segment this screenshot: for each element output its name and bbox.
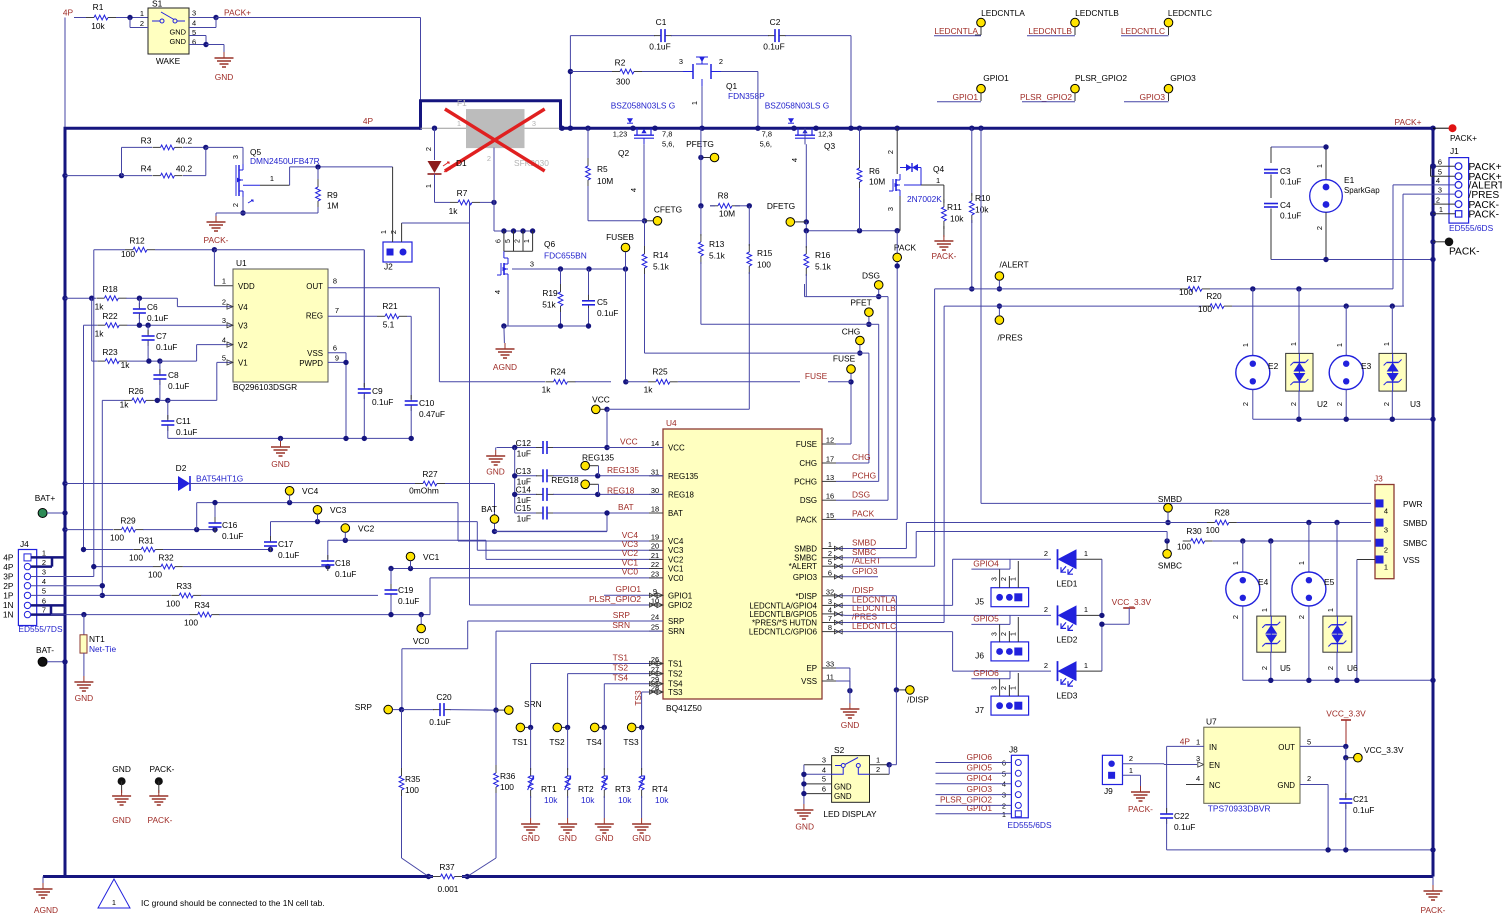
svg-text:4: 4 [192, 19, 196, 28]
svg-text:C6: C6 [147, 302, 158, 312]
testpoint DFETG [767, 201, 806, 226]
svg-text:6: 6 [192, 38, 196, 47]
capacitor C16 [209, 500, 244, 541]
svg-text:10M: 10M [869, 177, 885, 187]
svg-text:GPIO1: GPIO1 [668, 591, 693, 600]
svg-text:2: 2 [719, 57, 723, 66]
svg-text:4P: 4P [1180, 737, 1191, 747]
wire J2 pin1 [392, 167, 394, 242]
capacitor C11 [161, 400, 197, 438]
svg-text:2: 2 [1289, 402, 1298, 406]
capacitor C12 [497, 438, 664, 459]
connector J4 [3, 539, 63, 634]
svg-text:2: 2 [1241, 402, 1250, 406]
svg-text:7: 7 [828, 614, 832, 623]
capacitor C14 REG18 [512, 485, 663, 506]
svg-text:11: 11 [826, 673, 834, 682]
svg-text:3: 3 [532, 119, 536, 128]
svg-text:1uF: 1uF [517, 514, 531, 524]
resistor R7 [435, 188, 497, 216]
svg-text:3: 3 [192, 9, 196, 18]
wire TS1 net [531, 661, 663, 728]
svg-text:6: 6 [495, 239, 502, 243]
svg-text:*DISP: *DISP [795, 592, 817, 601]
svg-text:1: 1 [1011, 632, 1018, 636]
svg-text:C14: C14 [516, 485, 532, 495]
svg-text:VC4: VC4 [302, 486, 319, 496]
svg-text:5.1k: 5.1k [653, 262, 670, 272]
svg-text:SMBC: SMBC [1158, 561, 1182, 571]
svg-text:V3: V3 [238, 322, 248, 331]
svg-text:S2: S2 [834, 745, 845, 755]
wire 4P thick bus top [64, 101, 1434, 130]
svg-text:2: 2 [1335, 402, 1344, 406]
svg-text:E4: E4 [1258, 577, 1269, 587]
svg-text:PACK+: PACK+ [224, 8, 251, 18]
svg-text:J1: J1 [1450, 146, 1459, 156]
svg-text:1: 1 [1335, 343, 1344, 347]
svg-text:GPIO2: GPIO2 [668, 601, 692, 610]
svg-text:4: 4 [790, 158, 799, 162]
svg-text:2: 2 [1001, 686, 1008, 690]
svg-text:C5: C5 [597, 297, 608, 307]
wire J1 pins [1393, 163, 1455, 306]
svg-text:4: 4 [629, 188, 638, 192]
svg-text:BQ41Z50: BQ41Z50 [666, 703, 702, 713]
testpoint VC4 [285, 486, 318, 503]
svg-text:GND: GND [169, 28, 186, 37]
svg-text:D1: D1 [456, 158, 467, 168]
svg-text:0.1uF: 0.1uF [156, 342, 177, 352]
wire right bus vertical [1432, 127, 1435, 877]
svg-text:0.001: 0.001 [438, 884, 459, 894]
svg-text:17: 17 [826, 455, 834, 464]
transistor Q6 pins 6,5,2,1 [494, 228, 535, 251]
svg-text:AGND: AGND [34, 905, 58, 915]
wire TS3 net [642, 689, 663, 727]
svg-text:FUSEB: FUSEB [606, 232, 634, 242]
resistor R13 [699, 206, 726, 324]
svg-text:VC0: VC0 [622, 567, 639, 577]
note triangle 1 [98, 879, 325, 908]
wire S2 left pins [801, 765, 831, 804]
svg-text:2: 2 [1307, 774, 1311, 783]
svg-text:U2: U2 [1317, 399, 1328, 409]
testpoint /PRES [995, 303, 1023, 342]
svg-text:REG18: REG18 [668, 490, 695, 499]
svg-text:DMN2450UFB47R: DMN2450UFB47R [250, 156, 320, 166]
capacitor C22 [1160, 746, 1195, 850]
power VCC_3.3V at U7 [1326, 709, 1366, 747]
svg-text:51k: 51k [542, 300, 556, 310]
svg-text:0.1uF: 0.1uF [335, 569, 356, 579]
svg-text:LED1: LED1 [1057, 579, 1078, 589]
wire S1 pin2 loop [130, 18, 148, 28]
wire VC3 net [271, 519, 664, 550]
svg-text:LEDCNTLA: LEDCNTLA [981, 8, 1025, 18]
svg-text:10M: 10M [719, 209, 735, 219]
svg-text:DSG: DSG [800, 496, 817, 505]
wire precharge rail [559, 36, 573, 131]
svg-text:GPIO3: GPIO3 [1170, 73, 1196, 83]
svg-text:J7: J7 [975, 705, 984, 715]
svg-text:J8: J8 [1009, 745, 1018, 755]
svg-text:4P: 4P [63, 8, 74, 18]
wire U4 right red net labels [852, 452, 896, 631]
svg-text:2: 2 [1384, 546, 1388, 555]
svg-text:LED3: LED3 [1057, 690, 1078, 700]
node bus R29 [62, 527, 67, 532]
svg-text:GND: GND [1277, 781, 1295, 790]
svg-text:R14: R14 [653, 250, 669, 260]
wire F1 pin2 to Q6 [493, 148, 495, 231]
svg-text:GND: GND [486, 467, 505, 477]
svg-text:18: 18 [651, 505, 659, 514]
svg-text:R36: R36 [500, 771, 516, 781]
svg-text:3: 3 [231, 155, 240, 159]
svg-text:BAT: BAT [668, 509, 683, 518]
capacitor C19 [385, 569, 420, 615]
svg-text:SMBD: SMBD [1403, 518, 1427, 528]
svg-text:1: 1 [1011, 577, 1018, 581]
svg-text:VC2: VC2 [668, 555, 683, 564]
svg-text:GPIO1: GPIO1 [952, 92, 978, 102]
wire bottom 3.3V rail [1167, 847, 1436, 852]
wire U7 GND [1300, 785, 1328, 850]
svg-text:4: 4 [1384, 506, 1388, 515]
capacitor C17 [264, 536, 299, 560]
wire Q6 drain node [523, 266, 629, 271]
tvs U5 [1257, 541, 1291, 680]
ground GND under S2 [794, 804, 814, 832]
wire Q5 gate to R9/J2 [243, 164, 393, 185]
svg-text:2: 2 [1315, 226, 1324, 230]
svg-text:GPIO5: GPIO5 [973, 614, 999, 624]
wire CHG arm [645, 353, 869, 463]
red X over F1 [445, 109, 545, 171]
svg-text:IN: IN [1209, 743, 1217, 752]
svg-text:1: 1 [112, 898, 116, 907]
resistor R26 [102, 386, 170, 410]
connector J3 [1374, 474, 1427, 579]
svg-text:2: 2 [1044, 605, 1048, 614]
svg-text:Q1: Q1 [726, 81, 738, 91]
svg-text:FDN358P: FDN358P [728, 91, 765, 101]
svg-text:C20: C20 [436, 692, 452, 702]
svg-text:100: 100 [166, 599, 180, 609]
svg-text:2: 2 [424, 147, 433, 151]
svg-text:VC2: VC2 [358, 524, 375, 534]
svg-text:R26: R26 [128, 386, 144, 396]
svg-text:3: 3 [679, 57, 683, 66]
svg-text:R31: R31 [138, 536, 154, 546]
svg-text:1k: 1k [542, 385, 552, 395]
svg-text:10k: 10k [544, 795, 558, 805]
svg-text:R16: R16 [815, 250, 831, 260]
svg-text:R28: R28 [1214, 508, 1230, 518]
svg-text:1: 1 [1241, 343, 1250, 347]
surge arrester E3 [1329, 306, 1371, 419]
svg-text:10k: 10k [950, 214, 964, 224]
svg-text:PLSR_GPIO2: PLSR_GPIO2 [1020, 92, 1072, 102]
wire VC1 net [388, 566, 663, 571]
resistor R37 [426, 862, 470, 894]
ground GND under U1 [271, 441, 290, 469]
svg-text:100: 100 [757, 260, 771, 270]
ground PACK- bottom right [1421, 877, 1446, 915]
svg-text:2: 2 [1129, 754, 1133, 763]
ground GND under S1 [215, 52, 234, 82]
testpoint REG18 [551, 475, 598, 494]
svg-text:S1: S1 [152, 0, 163, 9]
svg-text:J9: J9 [1104, 786, 1113, 796]
svg-text:0.1uF: 0.1uF [763, 42, 784, 52]
svg-text:DFETG: DFETG [767, 201, 795, 211]
svg-text:V4: V4 [238, 303, 248, 312]
svg-text:*PRES/*S HUTDN: *PRES/*S HUTDN [752, 619, 817, 628]
svg-text:TS1: TS1 [613, 653, 629, 663]
svg-text:R29: R29 [120, 516, 136, 526]
svg-text:1k: 1k [644, 385, 654, 395]
svg-text:CHG: CHG [852, 452, 871, 462]
resistor R4 [65, 164, 206, 179]
svg-text:100: 100 [121, 249, 135, 259]
svg-text:/DISP: /DISP [852, 585, 874, 595]
svg-text:1: 1 [1384, 563, 1388, 572]
svg-text:/PRES: /PRES [997, 333, 1023, 343]
svg-text:GPIO3: GPIO3 [793, 573, 818, 582]
resistor R12 [121, 236, 364, 260]
svg-text:VC3: VC3 [330, 505, 347, 515]
ground AGND bottom left [34, 877, 66, 915]
wire GPIO1 net [604, 593, 663, 598]
svg-text:CHG: CHG [842, 327, 861, 337]
wire E2-U3 bottom rail [1253, 417, 1436, 422]
svg-text:GND: GND [632, 833, 651, 843]
capacitor C9 [358, 250, 394, 439]
svg-text:R4: R4 [141, 164, 152, 174]
resistor R18 [65, 284, 177, 312]
svg-text:VSS: VSS [801, 677, 817, 686]
svg-text:VSS: VSS [307, 349, 323, 358]
wire S2 right pins [870, 762, 897, 774]
wire U4 EP [836, 668, 850, 691]
svg-text:1: 1 [1315, 164, 1324, 168]
svg-text:5.1k: 5.1k [709, 251, 726, 261]
svg-text:R30: R30 [1186, 526, 1202, 536]
svg-text:2: 2 [487, 154, 491, 163]
node bus R18 [62, 296, 67, 301]
net-tie NT1 [80, 615, 116, 676]
resistor R5 [585, 126, 644, 221]
wire SRP net [402, 621, 663, 710]
svg-text:0.1uF: 0.1uF [372, 397, 393, 407]
svg-text:E5: E5 [1324, 577, 1335, 587]
wire U7 OUT [1300, 744, 1404, 762]
testpoint LEDCNTLA [934, 8, 1025, 36]
svg-text:PACK: PACK [852, 509, 875, 519]
svg-text:R12: R12 [129, 236, 145, 246]
svg-text:R22: R22 [102, 311, 118, 321]
svg-text:31: 31 [651, 467, 659, 476]
svg-text:TS2: TS2 [668, 670, 683, 679]
svg-text:1: 1 [1326, 608, 1335, 612]
svg-text:SRP: SRP [668, 617, 684, 626]
svg-text:LEDCNTLC: LEDCNTLC [1168, 8, 1212, 18]
testpoint SRN [496, 699, 542, 714]
svg-text:1M: 1M [327, 201, 339, 211]
svg-text:5: 5 [1307, 738, 1311, 747]
capacitor C18 [321, 555, 356, 579]
svg-text:OUT: OUT [1278, 743, 1295, 752]
wire BAT node [495, 513, 664, 531]
testpoint SMBD [1158, 494, 1182, 525]
testpoint GPIO3 top [1124, 73, 1196, 102]
svg-text:4P: 4P [3, 553, 14, 563]
svg-text:2: 2 [140, 19, 144, 28]
svg-text:GND: GND [595, 833, 614, 843]
net PACK+ top right [1394, 117, 1477, 143]
svg-text:100: 100 [129, 553, 143, 563]
svg-text:R11: R11 [947, 202, 962, 212]
svg-text:R32: R32 [158, 553, 174, 563]
svg-text:100: 100 [1177, 542, 1191, 552]
svg-text:4P: 4P [363, 116, 374, 126]
svg-text:1: 1 [140, 9, 144, 18]
svg-text:2: 2 [1260, 666, 1269, 670]
resistor R10 [969, 126, 991, 292]
transistor Q1 FDN358P [679, 57, 765, 131]
svg-text:PACK-: PACK- [150, 764, 175, 774]
wire U1 V4 [177, 298, 233, 306]
testpoint REG135 [581, 453, 614, 476]
svg-text:C21: C21 [1353, 794, 1369, 804]
wire U1 V1 [168, 362, 233, 400]
resistor R19 [542, 269, 563, 326]
svg-text:1: 1 [524, 239, 531, 243]
svg-text:SMBC: SMBC [1403, 538, 1427, 548]
capacitor C8 [153, 361, 189, 400]
IC U7 TPS70933DBVR [1167, 717, 1312, 814]
svg-text:F1: F1 [457, 98, 467, 108]
testpoint LEDCNTLB [1027, 8, 1119, 36]
IC U1 BQ296103DSGR [222, 258, 339, 392]
wire VC0 net [430, 578, 663, 615]
svg-text:SMBD: SMBD [794, 545, 817, 554]
resistor R28 [1206, 508, 1371, 536]
svg-text:1: 1 [690, 101, 699, 105]
surge arrester E2 [1236, 289, 1279, 419]
svg-text:R5: R5 [597, 164, 608, 174]
svg-text:1: 1 [1084, 549, 1088, 558]
svg-text:2: 2 [515, 239, 522, 243]
resistor R36 [467, 710, 515, 876]
svg-text:12,3: 12,3 [818, 130, 832, 139]
connector J5 [975, 561, 1028, 607]
svg-text:E2: E2 [1268, 361, 1279, 371]
svg-text:GPIO4: GPIO4 [973, 558, 999, 568]
svg-text:2N7002K: 2N7002K [907, 194, 942, 204]
thermistor RT1 [521, 727, 558, 843]
svg-text:GPIO3: GPIO3 [852, 566, 878, 576]
ground AGND under Q6 [493, 343, 517, 372]
led LED2 [1044, 605, 1102, 645]
switch S1 (WAKE) [140, 0, 196, 66]
svg-text:ED555/7DS: ED555/7DS [18, 624, 63, 634]
svg-text:R2: R2 [615, 57, 626, 67]
resistor R25 [626, 367, 851, 395]
svg-text:/DISP: /DISP [907, 695, 929, 705]
svg-text:C18: C18 [335, 558, 351, 568]
svg-text:C7: C7 [156, 331, 167, 341]
wire GPIO3 net stub [836, 576, 878, 578]
testpoint BAT [481, 484, 499, 535]
svg-text:1: 1 [876, 756, 880, 765]
wire PFETG column [698, 128, 703, 208]
svg-text:1P: 1P [3, 591, 14, 601]
svg-text:VC1: VC1 [423, 552, 440, 562]
wire U1 VDD [214, 250, 233, 286]
svg-text:U4: U4 [666, 418, 677, 428]
wire PACK- rail R12 [94, 249, 125, 251]
svg-text:SparkGap: SparkGap [1344, 186, 1380, 195]
svg-text:2: 2 [1001, 632, 1008, 636]
svg-text:100: 100 [184, 618, 198, 628]
wire S1 pins 5,6 to GND [189, 36, 224, 53]
svg-text:7,8: 7,8 [762, 130, 772, 139]
testpoint /ALERT [995, 260, 1028, 292]
svg-text:R21: R21 [382, 301, 398, 311]
svg-text:J5: J5 [975, 597, 984, 607]
svg-text:D2: D2 [176, 463, 187, 473]
svg-text:R3: R3 [141, 136, 152, 146]
capacitor C15 BAT [515, 503, 610, 524]
svg-text:BAT: BAT [481, 504, 497, 514]
wire J3 VSS [1357, 560, 1375, 681]
svg-text:32: 32 [826, 587, 834, 596]
svg-text:SMBD: SMBD [1158, 494, 1182, 504]
testpoint TS4 [586, 723, 607, 747]
wire U1 V2 [160, 345, 233, 362]
svg-text:3: 3 [42, 568, 46, 577]
svg-text:V2: V2 [238, 341, 248, 350]
svg-text:5: 5 [505, 239, 512, 243]
svg-text:3: 3 [222, 316, 226, 325]
svg-text:6: 6 [333, 344, 337, 353]
svg-text:0.1uF: 0.1uF [429, 717, 450, 727]
svg-text:0.1uF: 0.1uF [597, 308, 618, 318]
connector J1 [1436, 146, 1502, 233]
capacitor C3 [1264, 166, 1301, 198]
testpoint PLSR_GPIO2 top [1020, 73, 1127, 102]
testpoint LEDCNTLC [1121, 8, 1212, 36]
svg-text:GND: GND [795, 822, 814, 832]
svg-text:GPIO1: GPIO1 [615, 584, 641, 594]
svg-text:SRP: SRP [613, 610, 631, 620]
resistor R34 [84, 600, 430, 628]
wire U1 OUT [328, 288, 439, 382]
svg-text:R35: R35 [405, 774, 421, 784]
svg-text:BQ296103DSGR: BQ296103DSGR [233, 382, 297, 392]
svg-text:GND: GND [215, 72, 234, 82]
svg-text:RT2: RT2 [578, 784, 594, 794]
resistor R29 [65, 516, 218, 543]
svg-text:PACK-: PACK- [148, 815, 173, 825]
transistor Q2 BSZ058N03LSG [611, 101, 676, 193]
svg-text:FDC655BN: FDC655BN [544, 251, 587, 261]
svg-text:R9: R9 [327, 190, 338, 200]
svg-text:GND: GND [112, 815, 131, 825]
